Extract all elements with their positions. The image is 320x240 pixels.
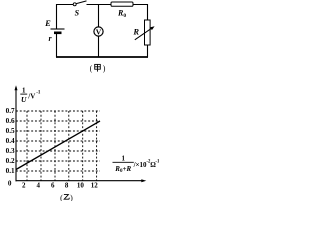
svg-text:): ) — [103, 64, 106, 73]
svg-text:0.4: 0.4 — [6, 137, 15, 145]
svg-text:V: V — [96, 27, 102, 36]
svg-text:/×10: /×10 — [133, 161, 147, 169]
svg-text:0.6: 0.6 — [6, 117, 15, 125]
svg-text:): ) — [70, 193, 73, 201]
y-axis — [15, 87, 17, 181]
voltmeter V — [94, 27, 103, 36]
svg-text:S: S — [75, 9, 80, 18]
svg-text:0.1: 0.1 — [6, 167, 15, 175]
svg-text:6: 6 — [51, 181, 55, 189]
wire: rheostat down to bottom-right corner — [147, 45, 149, 57]
wire: voltmeter branch bottom — [98, 36, 100, 57]
svg-text:U: U — [21, 95, 27, 104]
svg-text:0.3: 0.3 — [6, 147, 15, 155]
svg-text:0: 0 — [8, 180, 12, 188]
y tick labels — [6, 107, 15, 187]
wire: left below battery — [56, 33, 58, 57]
caption glyph yi — [64, 195, 70, 200]
data line — [16, 121, 100, 170]
wire: left side from battery up and right to switch — [57, 5, 74, 30]
svg-text:1: 1 — [122, 154, 126, 162]
svg-text:E: E — [44, 18, 51, 28]
svg-text:12: 12 — [91, 181, 99, 189]
caption glyph jia — [95, 64, 101, 71]
rheostat R arrow — [135, 28, 152, 40]
battery long plate — [51, 28, 65, 30]
svg-text:(: ( — [90, 64, 93, 73]
x-axis — [16, 180, 145, 182]
svg-text:R0+R: R0+R — [114, 165, 131, 174]
wire: switch to resistor R0 — [87, 4, 112, 6]
svg-text:0.2: 0.2 — [6, 157, 15, 165]
wire: bottom — [56, 56, 148, 58]
wire: R0 to top-right corner down to rheostat — [133, 5, 148, 21]
svg-text:4: 4 — [37, 181, 41, 189]
switch S pivot circle — [73, 3, 76, 6]
wire: voltmeter branch top — [98, 5, 100, 28]
svg-text:/V: /V — [27, 92, 35, 100]
svg-text:(: ( — [60, 193, 63, 201]
svg-text:2: 2 — [22, 181, 26, 189]
svg-text:8: 8 — [65, 181, 69, 189]
svg-text:-1: -1 — [155, 160, 159, 165]
svg-text:0.7: 0.7 — [6, 107, 15, 115]
resistor R0 — [111, 2, 133, 6]
battery short plate — [54, 31, 62, 34]
rheostat R body — [145, 20, 151, 45]
svg-text:-1: -1 — [36, 91, 41, 96]
svg-text:10: 10 — [77, 181, 85, 189]
svg-text:1: 1 — [22, 87, 26, 95]
svg-text:R: R — [132, 27, 139, 37]
svg-text:0.5: 0.5 — [6, 127, 15, 135]
horizontal gridlines — [16, 111, 100, 171]
switch S blade — [76, 1, 86, 4]
x tick labels — [22, 181, 98, 189]
vertical gridlines — [27, 111, 97, 181]
